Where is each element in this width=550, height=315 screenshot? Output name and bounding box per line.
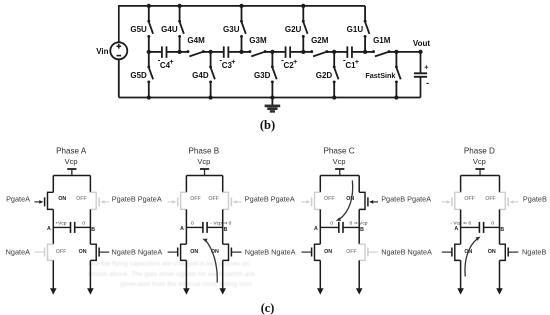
label C1 minus xyxy=(343,55,346,64)
svg-text:shown above. The gate drive si: shown above. The gate drive signals for … xyxy=(88,271,255,278)
label ON/OFF PMOS right C xyxy=(346,196,354,202)
svg-text:PgateB PgateA: PgateB PgateA xyxy=(245,195,295,204)
label Vin xyxy=(96,47,108,56)
node A B xyxy=(180,226,184,232)
label C2 plus xyxy=(293,57,298,66)
wire C1 right xyxy=(352,51,365,53)
wire G5D lower xyxy=(148,82,150,98)
transistor NMOS left C (ON) xyxy=(302,244,321,260)
svg-text:C4: C4 xyxy=(160,61,171,70)
svg-text:B: B xyxy=(360,227,364,233)
wire C3 left xyxy=(211,51,224,53)
label cap right B xyxy=(210,220,231,226)
label NgateB right of D xyxy=(522,247,546,256)
label G3M xyxy=(249,36,267,45)
label C3 minus xyxy=(219,55,222,64)
svg-text:0: 0 xyxy=(191,220,194,226)
wire right column middle A xyxy=(89,209,91,244)
wire left column middle B xyxy=(185,209,187,244)
node A D xyxy=(454,226,458,232)
svg-text:ON: ON xyxy=(58,196,66,202)
wire node row left A xyxy=(53,226,70,228)
switch G4U xyxy=(178,20,184,38)
label Vcp C xyxy=(333,157,346,166)
label NgateB/NgateA between B-C xyxy=(245,247,296,256)
label ON/OFF NMOS right B xyxy=(211,249,219,255)
wire G4U lower xyxy=(179,36,181,52)
junction node n4 xyxy=(270,50,274,54)
svg-text:G1U: G1U xyxy=(347,25,364,34)
wire G3U upper xyxy=(241,6,243,21)
switch G2U xyxy=(302,20,308,38)
label Vcp D xyxy=(473,157,486,166)
transistor NMOS left A (OFF) xyxy=(35,244,54,260)
label PgateB right of D xyxy=(523,195,547,204)
svg-text:C3: C3 xyxy=(222,61,233,70)
wire down-arrow left A xyxy=(50,260,57,294)
label cap left A xyxy=(55,220,67,226)
junction top rail above G3U xyxy=(239,4,243,8)
switch G3M xyxy=(248,50,266,56)
svg-text:G2U: G2U xyxy=(285,25,302,34)
wire down-arrow right C xyxy=(356,260,363,294)
label ON/OFF PMOS right B xyxy=(208,196,219,202)
label ON/OFF NMOS right C xyxy=(346,249,357,255)
wire C1 left xyxy=(334,51,347,53)
label ON/OFF NMOS right A xyxy=(79,249,87,255)
svg-text:PgateB: PgateB xyxy=(523,195,547,204)
wire down-arrow left D xyxy=(457,260,464,294)
label PgateB/PgateA between B-C xyxy=(245,195,295,204)
wire G1M left xyxy=(365,51,373,53)
wire left column upper C xyxy=(319,176,321,193)
transistor NMOS right A (ON) xyxy=(90,244,109,260)
label G3U xyxy=(223,25,240,34)
svg-text:+Vcp: +Vcp xyxy=(55,220,67,226)
svg-text:G2M: G2M xyxy=(311,36,329,45)
label C4 xyxy=(160,61,171,70)
transistor NMOS right B (ON) xyxy=(223,244,242,260)
node A A xyxy=(47,226,51,232)
transistor PMOS left C (OFF) xyxy=(302,192,321,209)
label G4D xyxy=(192,71,209,80)
junction node n1 xyxy=(177,50,181,54)
transistor PMOS right A (OFF) xyxy=(90,192,109,209)
svg-text:-: - xyxy=(426,78,429,88)
wire right column middle C xyxy=(358,209,360,244)
wire bottom rail xyxy=(119,97,421,99)
label C3 xyxy=(222,61,233,70)
svg-text:OFF: OFF xyxy=(56,249,67,255)
svg-text:+: + xyxy=(424,63,429,72)
node B A xyxy=(91,227,95,233)
svg-text:Vout: Vout xyxy=(413,39,431,48)
junction bottom rail n2 xyxy=(208,95,212,99)
svg-text:A: A xyxy=(47,226,51,232)
transistor PMOS left A (ON) xyxy=(35,192,54,209)
svg-text:G5U: G5U xyxy=(130,25,147,34)
svg-text:0: 0 xyxy=(82,220,85,226)
label NgateA A xyxy=(6,247,30,256)
svg-text:Phase D: Phase D xyxy=(464,146,495,155)
switch G4M xyxy=(187,50,205,56)
svg-text:G4M: G4M xyxy=(187,36,205,45)
svg-text:OFF: OFF xyxy=(208,196,219,202)
capacitor C1 xyxy=(347,46,352,58)
svg-text:ON: ON xyxy=(346,196,354,202)
junction bottom rail n0 xyxy=(147,95,151,99)
wire rail A xyxy=(53,175,90,177)
switch G5D xyxy=(147,65,153,83)
label ON/OFF NMOS right D xyxy=(488,249,496,255)
wire G2D upper xyxy=(333,52,335,67)
wire left branch upper (top rail to Vin +) xyxy=(118,5,120,42)
wire G3D upper xyxy=(271,52,273,67)
wire G5D upper xyxy=(148,52,150,67)
wire C2 right xyxy=(290,51,303,53)
power Vcp tee A xyxy=(67,169,76,176)
label G3D xyxy=(254,71,271,80)
junction node n7 xyxy=(363,50,367,54)
switch G1M xyxy=(372,50,391,56)
svg-text:A: A xyxy=(180,226,184,232)
label cap left D xyxy=(450,220,471,226)
label C4 minus xyxy=(158,55,161,64)
svg-text:(c): (c) xyxy=(261,301,275,315)
wire top rail xyxy=(119,5,365,7)
wire G4D lower xyxy=(210,82,212,98)
svg-text:NgateB NgateA: NgateB NgateA xyxy=(112,247,163,256)
label C1 xyxy=(345,61,356,70)
junction top rail above G5U xyxy=(147,4,151,8)
label C2 minus xyxy=(281,55,284,64)
wire down-arrow right A xyxy=(87,260,94,294)
label Cout minus xyxy=(426,78,429,88)
label G4M xyxy=(187,36,205,45)
svg-text:G3D: G3D xyxy=(254,71,271,80)
label cap left B xyxy=(191,220,194,226)
svg-text:G2D: G2D xyxy=(316,71,333,80)
svg-text:B: B xyxy=(500,227,504,233)
transistor PMOS right B (OFF) xyxy=(223,192,242,209)
svg-text:C2: C2 xyxy=(284,61,295,70)
svg-text:A: A xyxy=(454,226,458,232)
power Vcp tee B xyxy=(200,169,209,176)
wire G3M left xyxy=(242,51,250,53)
wire down-arrow right B xyxy=(219,260,226,294)
svg-text:FastSink: FastSink xyxy=(365,71,395,80)
label G4U xyxy=(161,25,178,34)
switch FastSink xyxy=(395,65,401,83)
ground xyxy=(265,98,281,112)
label ON/OFF PMOS left C xyxy=(324,196,335,202)
wire G3M right xyxy=(265,51,272,53)
capacitor fly B xyxy=(203,222,207,233)
label C4 plus xyxy=(169,57,174,66)
junction node n8 xyxy=(394,50,398,54)
svg-text:PgateB PgateA: PgateB PgateA xyxy=(381,195,431,204)
label Vout xyxy=(413,39,431,48)
transistor NMOS left D (ON) xyxy=(442,244,461,260)
label ON/OFF PMOS right D xyxy=(485,196,496,202)
svg-text:NgateA: NgateA xyxy=(6,247,30,256)
capacitor C3 xyxy=(224,46,229,58)
wire right column upper D xyxy=(499,176,501,193)
wire left column upper D xyxy=(460,176,462,193)
wire G3D lower xyxy=(271,82,273,98)
svg-text:G1M: G1M xyxy=(373,36,391,45)
junction node n2 xyxy=(208,50,212,54)
wire down-arrow left C xyxy=(317,260,324,294)
label (c) xyxy=(261,301,275,315)
transistor PMOS right D (OFF) xyxy=(500,192,519,209)
svg-text:Vcp: Vcp xyxy=(65,157,78,166)
label Phase B xyxy=(189,146,220,155)
transistor NMOS right C (OFF) xyxy=(359,244,378,260)
capacitor C4 xyxy=(162,46,167,58)
svg-text:NgateB NgateA: NgateB NgateA xyxy=(381,247,432,256)
svg-text:OFF: OFF xyxy=(485,196,496,202)
transistor NMOS right D (ON) xyxy=(500,244,519,260)
capacitor fly C xyxy=(339,222,343,233)
label ON/OFF PMOS left B xyxy=(190,196,201,202)
wire C4 right xyxy=(167,51,180,53)
label G5U xyxy=(130,25,147,34)
node B D xyxy=(500,227,504,233)
wire G4D upper xyxy=(210,52,212,67)
wire G1M right xyxy=(389,51,396,53)
svg-text:PgateA: PgateA xyxy=(6,195,30,204)
svg-text:OFF: OFF xyxy=(346,249,357,255)
wire right column middle B xyxy=(222,209,224,244)
wire FastSink upper xyxy=(395,52,397,67)
wire G4M left xyxy=(180,51,188,53)
label C1 plus xyxy=(355,57,360,66)
capacitor fly A xyxy=(71,222,75,233)
label FastSink xyxy=(365,71,395,80)
wire right column upper C xyxy=(358,176,360,193)
label G1M xyxy=(373,36,391,45)
svg-text:OFF: OFF xyxy=(190,196,201,202)
switch G4D xyxy=(209,65,215,83)
svg-text:OFF: OFF xyxy=(324,196,335,202)
label NgateB/NgateA between C-D xyxy=(381,247,432,256)
label NgateB/NgateA between A-B xyxy=(112,247,163,256)
capacitor fly D xyxy=(479,222,483,233)
wire current arrow D xyxy=(465,237,481,277)
wire G1U lower xyxy=(364,36,366,52)
label Phase D xyxy=(464,146,495,155)
wire left column middle C xyxy=(319,209,321,244)
wire G1U upper xyxy=(364,6,366,21)
label G2M xyxy=(311,36,329,45)
wire node row left B xyxy=(186,226,203,228)
svg-text:(b): (b) xyxy=(260,118,275,132)
svg-text:G4U: G4U xyxy=(161,25,178,34)
svg-text:- Vcp ⇐ 0: - Vcp ⇐ 0 xyxy=(450,220,471,226)
wire right column middle D xyxy=(499,209,501,244)
wire left column upper A xyxy=(52,176,54,193)
svg-text:NgateB: NgateB xyxy=(522,247,546,256)
wire FastSink lower xyxy=(395,82,397,98)
wire C3 right xyxy=(228,51,241,53)
label G5D xyxy=(130,71,147,80)
svg-text:PgateB PgateA: PgateB PgateA xyxy=(112,195,162,204)
svg-text:B: B xyxy=(224,227,228,233)
wire G2U upper xyxy=(302,6,304,21)
wire right column upper A xyxy=(89,176,91,193)
label ON/OFF NMOS left D xyxy=(464,249,472,255)
svg-text:ON: ON xyxy=(190,249,198,255)
svg-text:0: 0 xyxy=(491,220,494,226)
wire node row left D xyxy=(461,226,480,228)
svg-text:ON: ON xyxy=(324,249,332,255)
wire node row left C xyxy=(320,226,339,228)
wire C2 left xyxy=(272,51,285,53)
switch G1U xyxy=(364,20,370,38)
label Phase A xyxy=(56,146,87,155)
power Vcp tee D xyxy=(475,169,484,176)
power Vcp tee C xyxy=(335,169,344,176)
junction bottom rail n6 xyxy=(332,95,336,99)
wire left column middle A xyxy=(52,209,54,244)
svg-text:Vcp: Vcp xyxy=(197,157,210,166)
svg-text:G3U: G3U xyxy=(223,25,240,34)
junction node n3 xyxy=(239,50,243,54)
label C2 xyxy=(284,61,295,70)
junction top rail above G4U xyxy=(177,4,181,8)
wire right column upper B xyxy=(222,176,224,193)
voltage source Vin xyxy=(110,42,127,59)
svg-text:Phase B: Phase B xyxy=(189,146,220,155)
svg-text:OFF: OFF xyxy=(464,196,475,202)
node B C xyxy=(360,227,364,233)
wire left branch lower (Vin - to bottom rail) xyxy=(118,59,120,97)
wire node row right C xyxy=(343,226,359,228)
node Vout junction xyxy=(418,50,422,54)
wire G4U upper xyxy=(179,6,181,21)
svg-text:- Vcp ⇒ 0: - Vcp ⇒ 0 xyxy=(210,220,231,226)
transistor NMOS left B (ON) xyxy=(168,244,187,260)
svg-text:C1: C1 xyxy=(345,61,356,70)
svg-text:G4D: G4D xyxy=(192,71,209,80)
label G2D xyxy=(316,71,333,80)
label ON/OFF NMOS left C xyxy=(324,249,332,255)
junction node n5 xyxy=(301,50,305,54)
wire G2U lower xyxy=(302,36,304,52)
svg-text:G5D: G5D xyxy=(130,71,147,80)
svg-text:Phase C: Phase C xyxy=(324,146,355,155)
label cap right D xyxy=(491,220,494,226)
label PgateB/PgateA between C-D xyxy=(381,195,431,204)
wire G4M right xyxy=(203,51,210,53)
label cap right C xyxy=(350,220,368,226)
svg-text:Vin: Vin xyxy=(96,47,108,56)
label ON/OFF NMOS left A xyxy=(56,249,67,255)
wire current arrow B xyxy=(202,239,217,283)
capacitor Cout xyxy=(414,52,427,98)
label Vcp B xyxy=(197,157,210,166)
svg-text:0 ⇒ Vcp: 0 ⇒ Vcp xyxy=(350,220,368,226)
label ON/OFF PMOS left D xyxy=(464,196,475,202)
label (b) xyxy=(260,118,275,132)
wire node row right D xyxy=(484,226,500,228)
junction bottom rail n8 xyxy=(394,95,398,99)
junction node n6 xyxy=(332,50,336,54)
label Phase C xyxy=(324,146,355,155)
junction top rail above G2U xyxy=(301,4,305,8)
label ON/OFF PMOS left A xyxy=(58,196,66,202)
wire rail D xyxy=(461,175,500,177)
switch G3D xyxy=(271,65,277,83)
node B B xyxy=(224,227,228,233)
svg-text:Vcp: Vcp xyxy=(333,157,346,166)
wire G2M left xyxy=(303,51,311,53)
label PgateA A xyxy=(6,195,30,204)
wire node row right A xyxy=(75,226,91,228)
wire down-arrow left B xyxy=(183,260,190,294)
switch G2D xyxy=(333,65,339,83)
svg-text:ON: ON xyxy=(79,249,87,255)
label G2U xyxy=(285,25,302,34)
label PgateB/PgateA between A-B xyxy=(112,195,162,204)
svg-text:G3M: G3M xyxy=(249,36,267,45)
label C3 plus xyxy=(231,57,236,66)
label ON/OFF PMOS right A xyxy=(76,196,87,202)
label ON/OFF NMOS left B xyxy=(190,249,198,255)
switch G5U xyxy=(147,20,153,38)
node A C xyxy=(314,226,318,232)
svg-text:0: 0 xyxy=(330,220,333,226)
wire G3U lower xyxy=(241,36,243,52)
svg-text:OFF: OFF xyxy=(76,196,87,202)
wire to Vout xyxy=(396,51,420,53)
wire node row right B xyxy=(207,226,223,228)
wire current arrow C xyxy=(336,181,353,221)
wire G5U upper xyxy=(148,6,150,21)
svg-text:and the flying capacitors are: and the flying capacitors are charged in… xyxy=(88,261,250,268)
transistor PMOS left D (OFF) xyxy=(442,192,461,209)
wire rail C xyxy=(320,175,359,177)
label Vcp A xyxy=(65,157,78,166)
label cap right A xyxy=(82,220,85,226)
junction bottom rail n4 xyxy=(270,95,274,99)
switch G2M xyxy=(310,50,328,56)
transistor PMOS left B (OFF) xyxy=(168,192,187,209)
wire G2D lower xyxy=(333,82,335,98)
switch G3U xyxy=(240,20,246,38)
junction node n0 xyxy=(147,50,151,54)
wire left column upper B xyxy=(185,176,187,193)
wire C4 left xyxy=(149,51,162,53)
wire down-arrow right D xyxy=(496,260,503,294)
wire G5U lower xyxy=(148,36,150,52)
svg-text:Phase A: Phase A xyxy=(56,146,87,155)
svg-text:B: B xyxy=(91,227,95,233)
wire rail B xyxy=(186,175,222,177)
svg-text:A: A xyxy=(314,226,318,232)
svg-text:ON: ON xyxy=(488,249,496,255)
label Cout plus xyxy=(424,63,429,72)
svg-text:Vcp: Vcp xyxy=(473,157,486,166)
wire left column middle D xyxy=(460,209,462,244)
wire G2M right xyxy=(327,51,334,53)
label G1U xyxy=(347,25,364,34)
transistor PMOS right C (ON) xyxy=(359,192,378,209)
svg-text:NgateB NgateA: NgateB NgateA xyxy=(245,247,296,256)
capacitor C2 xyxy=(286,46,291,58)
label cap left C xyxy=(330,220,333,226)
